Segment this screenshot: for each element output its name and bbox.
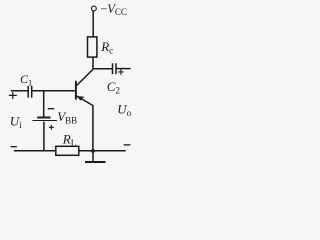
minus sign bottom left [11, 146, 17, 148]
plus sign at C2 [118, 69, 124, 75]
wire Rc to collector corner [92, 57, 94, 69]
ground stub [92, 151, 94, 162]
transistor emitter lead [77, 96, 93, 106]
wire base node to battery [43, 91, 45, 117]
terminal -VCC [92, 6, 97, 11]
plus sign at battery [49, 125, 54, 130]
battery VBB negative plate (short thick) [37, 117, 50, 119]
ground bar [85, 161, 106, 163]
wire battery to bottom rail [43, 122, 45, 151]
bottom wire right [79, 150, 126, 152]
wire collector node to C2 [92, 68, 112, 70]
bottom wire left [14, 150, 56, 152]
capacitor C2 plates [113, 63, 117, 74]
wire C1 to base [32, 90, 75, 92]
minus sign at battery [48, 108, 55, 110]
emitter arrow (PNP, pointing into bar) [77, 97, 83, 101]
plus sign input [9, 92, 17, 99]
transistor Q1 base bar [75, 81, 77, 100]
wire emitter down [92, 105, 94, 151]
capacitor C1 plates [28, 86, 32, 98]
junction dot emitter/bottom [91, 149, 95, 153]
transistor collector lead [77, 69, 93, 85]
minus sign bottom right [124, 144, 131, 146]
wire Vcc rail top [92, 11, 94, 37]
wire input to C1 [11, 90, 28, 92]
battery VBB positive plate (long thin) [32, 120, 57, 122]
resistor RL [56, 146, 79, 155]
wire C2 to output [117, 68, 131, 70]
resistor Rc [88, 37, 97, 57]
